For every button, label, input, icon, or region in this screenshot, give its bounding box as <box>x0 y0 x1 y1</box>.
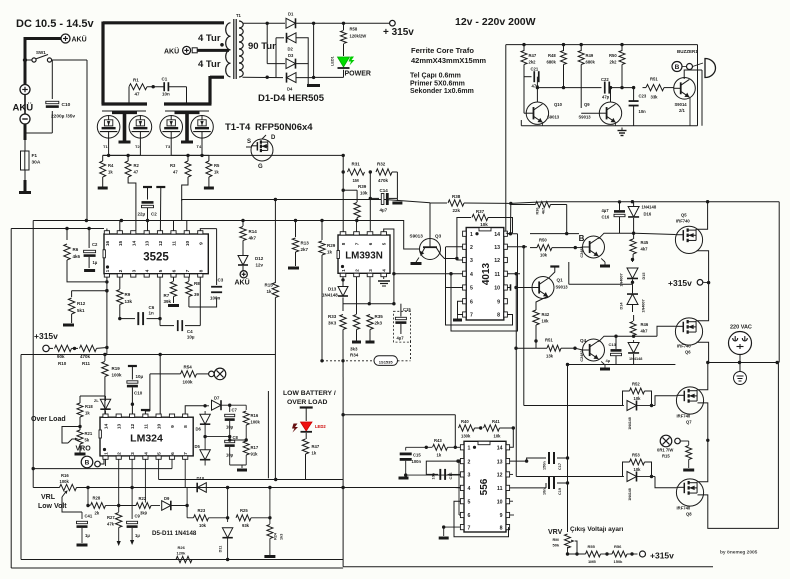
svg-text:100n: 100n <box>412 459 422 464</box>
diode D17 1N4148 <box>633 340 635 342</box>
wire 3525 pin5 down <box>159 277 161 319</box>
svg-text:7: 7 <box>468 525 471 531</box>
svg-text:Q5: Q5 <box>681 213 687 218</box>
svg-text:C19: C19 <box>558 488 562 495</box>
wire 4013 pin2 in <box>446 246 463 248</box>
svg-text:1k: 1k <box>327 250 333 255</box>
wire sources pair2 <box>170 138 172 155</box>
resistor R14 4k7 <box>242 221 244 227</box>
wire R15 down <box>274 298 276 480</box>
svg-text:30A: 30A <box>32 160 41 166</box>
wire pin3 down <box>131 459 133 510</box>
svg-text:150n: 150n <box>543 461 547 470</box>
wire R3 down <box>182 177 188 201</box>
svg-text:7: 7 <box>355 242 360 245</box>
svg-text:T1: T1 <box>103 144 108 149</box>
svg-text:D13: D13 <box>328 287 337 292</box>
svg-text:120k/2W: 120k/2W <box>350 34 367 39</box>
svg-text:R34: R34 <box>350 353 359 358</box>
svg-text:7: 7 <box>470 313 473 319</box>
svg-text:Q3: Q3 <box>435 234 442 239</box>
svg-text:11: 11 <box>497 486 503 492</box>
resistor R10 90k <box>49 347 53 349</box>
svg-text:LM393N: LM393N <box>345 251 383 262</box>
svg-text:R24: R24 <box>274 532 278 540</box>
wire D3 feed <box>266 23 268 63</box>
diode D4 <box>287 73 297 83</box>
wire pin7 down <box>184 459 186 487</box>
ground R13 <box>295 252 297 266</box>
wire 3525 pin9 up <box>200 229 216 231</box>
wire pin1 down <box>105 459 107 466</box>
wire C15 top link <box>406 446 427 448</box>
svg-text:8: 8 <box>341 242 346 245</box>
wire 556 pin5 loop <box>454 501 509 537</box>
resistor R22 3k9 <box>136 503 151 509</box>
timer U5 556 <box>464 441 506 532</box>
wire pin5 down <box>158 459 160 479</box>
diode D3 <box>286 59 296 69</box>
svg-text:1µ: 1µ <box>135 533 140 538</box>
svg-text:C2482: C2482 <box>580 350 584 361</box>
svg-text:ZL: ZL <box>94 399 99 403</box>
svg-text:100k: 100k <box>60 479 70 484</box>
svg-text:10k: 10k <box>480 222 488 227</box>
diode D14 1N4007 <box>627 294 638 304</box>
svg-text:R47: R47 <box>529 53 537 58</box>
svg-text:R55: R55 <box>588 544 596 549</box>
svg-text:R43: R43 <box>434 438 442 443</box>
svg-text:1N4007: 1N4007 <box>642 299 646 312</box>
svg-text:14: 14 <box>497 446 503 452</box>
svg-text:R10: R10 <box>58 361 67 366</box>
capacitor C40 10u <box>128 365 137 367</box>
resistor R2 47 <box>127 155 129 161</box>
wire box C bottom <box>343 566 713 568</box>
wire pin4 down <box>144 459 146 502</box>
svg-text:R58: R58 <box>350 27 358 32</box>
svg-text:Sekonder 1x0.6mm: Sekonder 1x0.6mm <box>410 88 474 95</box>
wire fuse to ground <box>24 170 26 180</box>
svg-text:Q9: Q9 <box>584 102 590 107</box>
svg-text:47k: 47k <box>107 522 115 527</box>
svg-text:D1: D1 <box>288 12 294 17</box>
resistor R58 120k2W <box>343 23 345 30</box>
ground R12 <box>71 314 73 323</box>
svg-text:2: 2 <box>470 245 473 251</box>
svg-text:1k: 1k <box>312 451 317 456</box>
resistor R35 2k3 <box>369 304 371 314</box>
wire thick bus T3T4 <box>164 102 212 105</box>
svg-text:R19: R19 <box>112 366 121 371</box>
wire R15 feed <box>274 200 276 284</box>
svg-text:Q10: Q10 <box>554 102 563 107</box>
svg-text:4k7: 4k7 <box>641 329 649 334</box>
resistor R15 1k <box>272 283 278 298</box>
part number 1S1535 stadium <box>322 360 374 362</box>
wire R37 loop <box>457 218 471 259</box>
svg-text:0R1 7/W: 0R1 7/W <box>657 448 673 453</box>
wire 3525 pin1 down <box>106 277 108 347</box>
ground R24 <box>269 539 271 556</box>
svg-text:3k3: 3k3 <box>350 347 358 352</box>
diode D11 <box>222 528 232 538</box>
svg-text:SW1: SW1 <box>36 50 46 55</box>
svg-text:4 Tur: 4 Tur <box>198 59 221 70</box>
transformer T1 core and windings <box>226 23 231 37</box>
wire box A left <box>10 229 12 569</box>
capacitor C2 22u <box>143 186 152 188</box>
transistor T3 <box>160 116 183 139</box>
svg-text:9: 9 <box>497 299 500 305</box>
svg-text:1: 1 <box>468 446 471 452</box>
resistor R19 100k <box>104 355 106 362</box>
svg-text:R39: R39 <box>358 184 367 189</box>
wire S9014 emitter <box>689 98 691 126</box>
svg-text:4µ: 4µ <box>606 358 611 363</box>
capacitor C7 10u <box>229 405 231 412</box>
transistor T2 <box>129 116 152 139</box>
svg-text:D15: D15 <box>642 273 646 280</box>
resistor R39 10k <box>343 189 357 191</box>
svg-text:R50: R50 <box>609 53 617 58</box>
wire R29 down <box>321 255 323 361</box>
svg-text:R48: R48 <box>548 53 556 58</box>
svg-text:3: 3 <box>468 473 471 479</box>
svg-text:RM: RM <box>553 537 560 542</box>
wire pin6 down <box>171 459 173 468</box>
svg-text:R28: R28 <box>93 496 101 501</box>
diode D19 1N4148 <box>623 476 625 478</box>
wire pin11 T <box>145 411 150 415</box>
svg-text:13: 13 <box>494 245 500 251</box>
resistor R28 2k <box>88 505 90 507</box>
mosfet example symbol <box>251 139 273 161</box>
wire Q5 gate <box>634 233 676 234</box>
svg-text:1µ: 1µ <box>85 533 90 538</box>
svg-text:R41: R41 <box>492 419 500 424</box>
svg-text:D10: D10 <box>197 476 205 481</box>
wire Q10 collector node to R48 <box>537 87 563 89</box>
ground R21 <box>79 444 81 453</box>
node B LM324 <box>81 456 93 468</box>
resistor R53 10k <box>630 459 645 465</box>
wire C13 D17 bottom join <box>568 364 676 366</box>
wire R53 to Q8 gate <box>652 476 656 478</box>
wire R16 node down <box>87 488 89 506</box>
wire rail y354 <box>21 354 275 356</box>
svg-text:R25: R25 <box>240 508 248 513</box>
svg-text:RFP50N06x4: RFP50N06x4 <box>255 122 313 133</box>
wire C10 branch <box>51 60 53 99</box>
svg-text:R7: R7 <box>164 293 170 298</box>
wire box C top link <box>343 414 455 416</box>
wire outlet bottom rail <box>708 362 778 364</box>
svg-text:R2: R2 <box>134 163 140 168</box>
svg-text:C8: C8 <box>233 435 239 440</box>
svg-text:VRL: VRL <box>41 494 56 501</box>
svg-text:S9013: S9013 <box>547 115 560 120</box>
svg-text:8: 8 <box>497 313 500 319</box>
wire Q9 collector <box>610 88 612 102</box>
svg-text:C16: C16 <box>449 473 453 480</box>
svg-text:1k: 1k <box>85 411 90 416</box>
svg-text:R9: R9 <box>125 292 131 297</box>
wire thick center tap <box>198 49 230 52</box>
svg-text:10µ: 10µ <box>226 453 234 458</box>
resistor R31 1M <box>342 155 344 172</box>
wire LM393 pin6 up <box>369 230 371 232</box>
svg-text:8: 8 <box>500 525 503 531</box>
svg-text:IRF740: IRF740 <box>677 344 691 349</box>
resistor R41 10k <box>484 425 500 431</box>
svg-text:B: B <box>675 64 680 71</box>
flip-flop U3 4013 <box>466 228 504 321</box>
svg-text:1k: 1k <box>108 170 113 175</box>
svg-text:VRO: VRO <box>76 446 92 453</box>
svg-text:15: 15 <box>118 241 124 247</box>
wire pin8 up right <box>185 406 205 414</box>
svg-text:D4: D4 <box>287 87 293 92</box>
svg-text:39: 39 <box>194 292 200 297</box>
wire C8 R17 node <box>230 439 247 441</box>
svg-text:R13: R13 <box>301 241 310 246</box>
svg-text:R29: R29 <box>327 243 336 248</box>
resistor R49 680k <box>580 45 582 51</box>
wire rail y487 main <box>33 487 59 489</box>
svg-text:C15: C15 <box>403 307 411 312</box>
svg-text:10k: 10k <box>494 434 502 439</box>
svg-text:4k7: 4k7 <box>641 247 649 252</box>
svg-text:100k: 100k <box>183 380 194 385</box>
svg-text:91k: 91k <box>251 452 259 457</box>
wire Q4b base <box>575 348 583 350</box>
svg-text:100k: 100k <box>112 373 123 378</box>
svg-text:T2: T2 <box>135 144 140 149</box>
svg-text:4: 4 <box>145 269 151 272</box>
svg-text:13k: 13k <box>546 354 554 359</box>
svg-text:R6: R6 <box>73 247 79 252</box>
battery AKU minus <box>20 114 30 124</box>
svg-text:12: 12 <box>497 473 503 479</box>
svg-text:R37: R37 <box>476 209 485 214</box>
wire D4 right up <box>296 23 314 77</box>
svg-text:C10: C10 <box>62 102 71 108</box>
svg-text:+ 315v: + 315v <box>383 27 414 38</box>
svg-text:Q1: Q1 <box>557 278 564 283</box>
svg-text:6: 6 <box>172 269 178 272</box>
ground Q4 emitter <box>601 258 605 262</box>
wire LM393 bottom rail <box>342 298 344 312</box>
wire pot bottom rail <box>567 547 569 554</box>
wire Q1 base in <box>516 287 532 289</box>
wire R25 node up <box>269 488 271 518</box>
svg-text:DC 10.5 - 14.5v: DC 10.5 - 14.5v <box>16 18 95 30</box>
svg-text:1k3: 1k3 <box>280 534 284 540</box>
svg-text:4µ7: 4µ7 <box>397 336 405 341</box>
capacitor C41 1u <box>62 497 82 512</box>
svg-text:680k: 680k <box>547 60 557 65</box>
fuse F1 <box>21 151 30 170</box>
svg-text:11: 11 <box>172 241 178 246</box>
resistor R37 10k <box>472 214 488 220</box>
ground C41 <box>77 544 88 547</box>
wire 556 pin4 rail <box>455 487 460 489</box>
resistor R7 39k <box>173 277 175 281</box>
svg-text:1k: 1k <box>214 170 219 175</box>
op-amp U1 3525 <box>104 234 208 274</box>
svg-text:C7: C7 <box>232 408 238 413</box>
svg-text:10n: 10n <box>432 472 436 479</box>
svg-text:C17: C17 <box>558 463 562 470</box>
svg-text:6: 6 <box>468 513 471 519</box>
svg-text:16: 16 <box>105 241 111 247</box>
wire D15 to Q1 collector <box>569 283 633 285</box>
svg-text:100k: 100k <box>251 420 261 425</box>
resistor R51 33k <box>646 84 664 90</box>
svg-text:12: 12 <box>158 241 164 247</box>
svg-text:130k: 130k <box>461 434 471 439</box>
svg-text:150k: 150k <box>614 559 624 564</box>
wire Q4 collector to gate rail <box>599 233 634 239</box>
resistor R16c 100k <box>60 484 77 490</box>
svg-text:4: 4 <box>470 272 473 278</box>
svg-text:22µ: 22µ <box>138 212 146 217</box>
wire C14 right gnd <box>389 197 398 199</box>
wire 4013 pin11 to R53 <box>515 274 517 477</box>
wire C1 right leg <box>169 86 187 88</box>
svg-text:10: 10 <box>185 241 191 247</box>
resistor R33 3K3 <box>342 311 344 314</box>
wire 3525 pin12 T <box>156 186 165 188</box>
mosfet Q6 IRF740 <box>675 318 702 345</box>
svg-text:5k: 5k <box>85 438 90 443</box>
svg-text:5: 5 <box>157 452 163 455</box>
svg-text:AKÜ: AKÜ <box>13 103 34 114</box>
wire LM393 pin5 jog <box>384 229 394 304</box>
wire 4013 loop inner <box>451 234 518 331</box>
node R1-C1 <box>152 85 155 88</box>
svg-text:C15: C15 <box>413 453 421 458</box>
resistor R4 1k <box>102 155 104 161</box>
resistor R29 1k <box>321 221 323 241</box>
svg-text:3k9: 3k9 <box>140 511 148 516</box>
svg-text:C4: C4 <box>187 329 193 334</box>
wire 4013 pin13 node <box>507 246 527 248</box>
svg-text:1N4148: 1N4148 <box>628 417 632 430</box>
svg-text:B: B <box>85 460 90 467</box>
svg-text:10n: 10n <box>162 92 170 97</box>
svg-text:2k3: 2k3 <box>375 321 383 326</box>
resistor R46 4k7 <box>633 315 635 321</box>
wire R33 down to box C <box>342 330 344 389</box>
svg-text:10µ: 10µ <box>187 335 195 340</box>
svg-text:22k: 22k <box>453 208 461 213</box>
wire LM393 pin1 down <box>342 277 344 286</box>
earth ground symbol <box>734 372 747 385</box>
wire buzzer box left edge <box>505 45 507 234</box>
svg-text:3525: 3525 <box>143 252 169 264</box>
svg-text:C13: C13 <box>609 342 617 347</box>
svg-text:R53: R53 <box>632 453 640 458</box>
svg-text:93k: 93k <box>242 523 250 528</box>
diode D7 <box>205 405 209 407</box>
wire S9014 collector <box>684 70 702 79</box>
svg-text:D12: D12 <box>255 256 264 261</box>
svg-text:4k7: 4k7 <box>249 236 257 241</box>
svg-text:Ferrite Core Trafo: Ferrite Core Trafo <box>411 46 474 55</box>
capacitor C14 4u7 <box>370 197 379 199</box>
wire R11 node down <box>106 348 108 355</box>
svg-text:2200µ /35v: 2200µ /35v <box>51 114 75 120</box>
svg-text:5: 5 <box>468 499 471 505</box>
svg-text:4µ7: 4µ7 <box>380 208 388 213</box>
transistor Q4 C2482 <box>583 236 605 258</box>
wire R47b to rail <box>276 454 306 480</box>
svg-text:C16: C16 <box>602 215 610 220</box>
svg-text:10: 10 <box>157 424 163 430</box>
svg-text:9: 9 <box>170 425 176 428</box>
wire R41 to pin14 <box>510 428 514 447</box>
svg-text:R47: R47 <box>312 444 320 449</box>
svg-text:5: 5 <box>158 269 164 272</box>
zener D12 12v <box>242 241 244 256</box>
wire Q6 source <box>697 342 709 362</box>
wire 556 pin1 <box>455 446 460 448</box>
resistor R15b 0R1 <box>688 441 690 445</box>
svg-text:R51: R51 <box>650 77 658 82</box>
wire thick transformer bottom L <box>210 76 224 79</box>
resistor R47 2k2 <box>523 45 525 51</box>
svg-text:4: 4 <box>468 486 471 492</box>
wire D2-D3 right join <box>296 38 308 64</box>
svg-text:90 Tur: 90 Tur <box>248 41 276 52</box>
wire thick T1T2 center T <box>112 111 137 115</box>
svg-text:2: 2 <box>355 269 360 272</box>
wire R31R32 node down <box>369 172 371 231</box>
wire pot arm loop <box>62 427 80 444</box>
resistor R12 5k1 <box>72 290 107 292</box>
wire thick T3T4 center T <box>175 111 200 115</box>
svg-text:47p: 47p <box>602 95 610 100</box>
svg-text:R12: R12 <box>77 301 86 306</box>
svg-text:R49: R49 <box>586 53 594 58</box>
wire 4013 pin3 in <box>457 259 463 261</box>
svg-text:4k6: 4k6 <box>73 254 81 259</box>
svg-text:47: 47 <box>134 170 139 175</box>
svg-text:R36: R36 <box>536 208 540 215</box>
svg-text:R46: R46 <box>641 322 649 327</box>
wire buzzer box right edge <box>697 45 699 126</box>
svg-text:AKÜ: AKÜ <box>235 278 250 287</box>
svg-text:R17: R17 <box>251 445 259 450</box>
wire Q10 emitter to rail <box>542 122 544 125</box>
wire Q4 base link <box>575 247 582 249</box>
svg-text:50k: 50k <box>553 543 560 548</box>
svg-text:9: 9 <box>198 242 204 245</box>
svg-text:T3: T3 <box>166 144 171 149</box>
wire base rail y233 <box>530 233 579 235</box>
svg-text:C22: C22 <box>601 77 609 82</box>
transistor T4 <box>191 116 214 139</box>
svg-text:C3: C3 <box>218 278 224 283</box>
svg-text:10k: 10k <box>360 191 368 196</box>
capacitor C16 4u7 <box>614 210 625 213</box>
op-amp U2 LM393N <box>338 235 390 273</box>
wire R6 bottom <box>67 260 107 282</box>
resistor R54 100k <box>150 373 181 375</box>
wire Q7 source <box>698 403 708 440</box>
